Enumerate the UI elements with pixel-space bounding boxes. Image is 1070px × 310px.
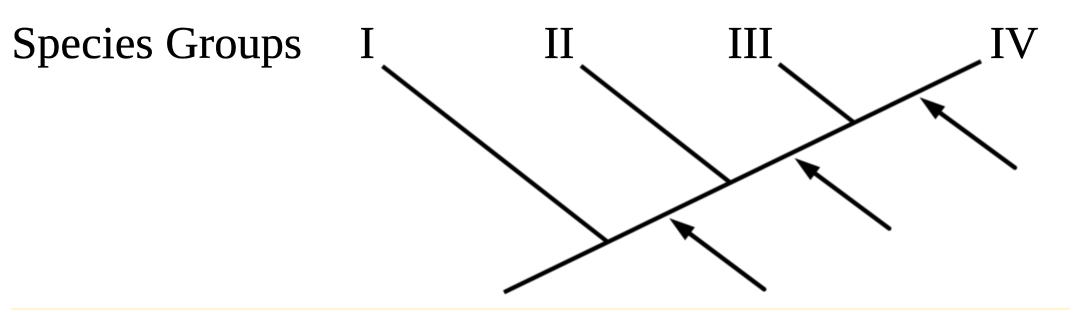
title: Species Groups xyxy=(12,20,303,66)
label II xyxy=(544,20,575,66)
arrow 3 shaft xyxy=(940,113,1015,168)
branch to group III xyxy=(779,64,854,122)
arrow 1 shaft xyxy=(690,234,764,289)
arrow 3 head xyxy=(920,97,946,119)
label IV xyxy=(990,20,1039,66)
arrow 2 shaft xyxy=(815,174,889,229)
arrow 2 head xyxy=(795,158,821,180)
cladogram main branch line xyxy=(504,61,981,292)
arrow 1 head xyxy=(669,218,695,240)
label III xyxy=(727,20,773,66)
label I xyxy=(360,20,375,66)
branch to group II xyxy=(581,66,730,182)
branch to group I xyxy=(383,66,608,242)
decorative cream bar at bottom xyxy=(11,308,1070,310)
